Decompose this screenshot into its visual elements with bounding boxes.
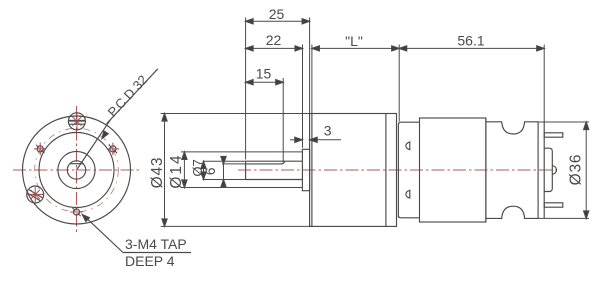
tap hole right (M4) <box>107 143 120 156</box>
dia7 extension bottom <box>203 179 246 181</box>
svg-text:56.1: 56.1 <box>457 33 484 49</box>
output shaft top edge <box>246 160 303 162</box>
shaft end bump <box>552 166 556 174</box>
bolt circle P.C.D 32 (red dash-dot) <box>35 128 119 212</box>
svg-text:Ø14: Ø14 <box>168 153 185 188</box>
svg-text:DEEP 4: DEEP 4 <box>125 253 175 269</box>
motor neck top edge with notch <box>486 122 538 134</box>
extension line flat end <box>282 78 284 162</box>
dim dia36 line <box>585 122 587 218</box>
arrow dim dia14 bottom <box>182 180 187 188</box>
dim 3 leader right <box>310 139 341 141</box>
motor can <box>420 118 486 222</box>
gearbox body <box>310 114 397 227</box>
gearbox rear plate line <box>385 114 387 227</box>
dim L <box>312 47 399 49</box>
svg-text:Ø36: Ø36 <box>567 154 584 186</box>
end cap right edge <box>543 122 545 219</box>
3-M4 TAP leader arrowhead <box>80 213 89 222</box>
extension line boss face <box>302 45 304 148</box>
svg-text:3-M4 TAP: 3-M4 TAP <box>125 236 187 252</box>
svg-text:6: 6 <box>202 167 218 175</box>
dim 25 <box>246 20 310 22</box>
dim dia43 line <box>164 114 166 227</box>
arrow dim 15 right <box>276 80 284 85</box>
arrow dim dia7 bottom <box>201 172 206 180</box>
centerline horizontal (front view) <box>13 169 140 171</box>
tap hole left (M4) <box>34 143 47 156</box>
arrow dim dia36 bottom <box>584 211 589 219</box>
svg-text:25: 25 <box>269 6 285 22</box>
arrow dim 22 left <box>246 46 254 51</box>
arrow dim 15 left <box>246 80 254 85</box>
terminal lower <box>544 203 563 207</box>
brush housing <box>544 148 552 191</box>
main centerline <box>238 169 557 171</box>
extension line gearbox rear / motor front <box>398 45 400 122</box>
arrow dim 22 right <box>295 46 303 51</box>
shaft flat line <box>246 161 285 164</box>
3-M4 TAP leader line <box>84 216 123 253</box>
extension line shaft tip <box>245 18 247 160</box>
extension line gearbox face <box>309 18 311 114</box>
arrow dim 3 left <box>295 137 303 142</box>
arrow dim 25 right <box>302 19 310 24</box>
dim 22 <box>246 47 303 49</box>
shaft D-flat chord <box>70 163 83 165</box>
3-M4 TAP text underline <box>123 252 191 254</box>
boss circle <box>58 151 95 188</box>
arrow dim dia43 top <box>162 114 167 122</box>
dia43 extension top <box>161 113 312 115</box>
arrow dim dia36 top <box>584 122 589 130</box>
dia14 extension bottom <box>181 187 302 189</box>
arrow dim dia7 top <box>201 161 206 169</box>
arrow dim L left <box>312 46 320 51</box>
dim 56.1 <box>399 47 544 49</box>
output shaft bottom edge <box>246 179 303 181</box>
extension line gearbox body front <box>311 45 313 114</box>
motor front bracket <box>398 122 419 218</box>
dim dia14 line <box>183 152 185 188</box>
extension line motor end cap <box>543 45 545 122</box>
arrow dim 56.1 left <box>399 46 407 51</box>
terminal upper <box>544 133 563 137</box>
bracket tab upper <box>406 142 410 150</box>
end cap left edge <box>537 122 539 219</box>
dia36 extension top <box>537 121 589 123</box>
flange outer circle <box>23 116 131 224</box>
arrow dim dia14 top <box>182 152 187 160</box>
svg-text:22: 22 <box>266 32 282 48</box>
inner circle <box>39 133 114 208</box>
dim dia7 line <box>203 161 205 179</box>
dia43 extension bottom <box>161 225 312 227</box>
arrow dim 6 top (outside) <box>221 156 226 164</box>
P.C.D 32 leader line <box>77 119 111 170</box>
arrow dim 25 left <box>246 19 254 24</box>
screw head lower-left <box>27 186 44 203</box>
svg-text:"L": "L" <box>345 33 363 49</box>
bracket tab lower <box>406 190 410 198</box>
motor can rear edge <box>485 118 487 222</box>
arrow dim 3 right <box>310 137 318 142</box>
P.C.D 32 leader arrowhead <box>100 131 109 140</box>
motor neck bottom edge with notch <box>486 206 538 218</box>
arrow dim 6 bottom (outside) <box>221 180 226 188</box>
arrow dim dia43 bottom <box>162 219 167 227</box>
output shaft tip edge <box>245 161 247 179</box>
gearbox front plate line <box>311 114 313 227</box>
collar boss <box>302 149 309 190</box>
P.C.D 32 text underline <box>107 69 158 124</box>
dim 6 extension (flat) <box>222 163 246 165</box>
dim 6 line <box>223 156 225 187</box>
dia36 extension bottom <box>537 217 589 219</box>
arrow dim 56.1 right <box>537 46 545 51</box>
arrow dim L right <box>392 46 400 51</box>
dia14 extension top <box>181 151 302 153</box>
centerline vertical (front view) <box>76 106 78 234</box>
svg-text:3: 3 <box>324 123 332 139</box>
screw head top <box>68 113 85 130</box>
svg-text:P.C.D 32: P.C.D 32 <box>105 72 151 120</box>
svg-text:15: 15 <box>256 66 272 82</box>
dia7 extension top <box>203 160 246 162</box>
dim 15 <box>246 81 284 83</box>
tap hole bottom (M4) <box>70 208 83 216</box>
dim 3 leader left <box>290 139 302 141</box>
shaft hole circle <box>67 161 85 179</box>
svg-text:Ø43: Ø43 <box>149 157 166 189</box>
